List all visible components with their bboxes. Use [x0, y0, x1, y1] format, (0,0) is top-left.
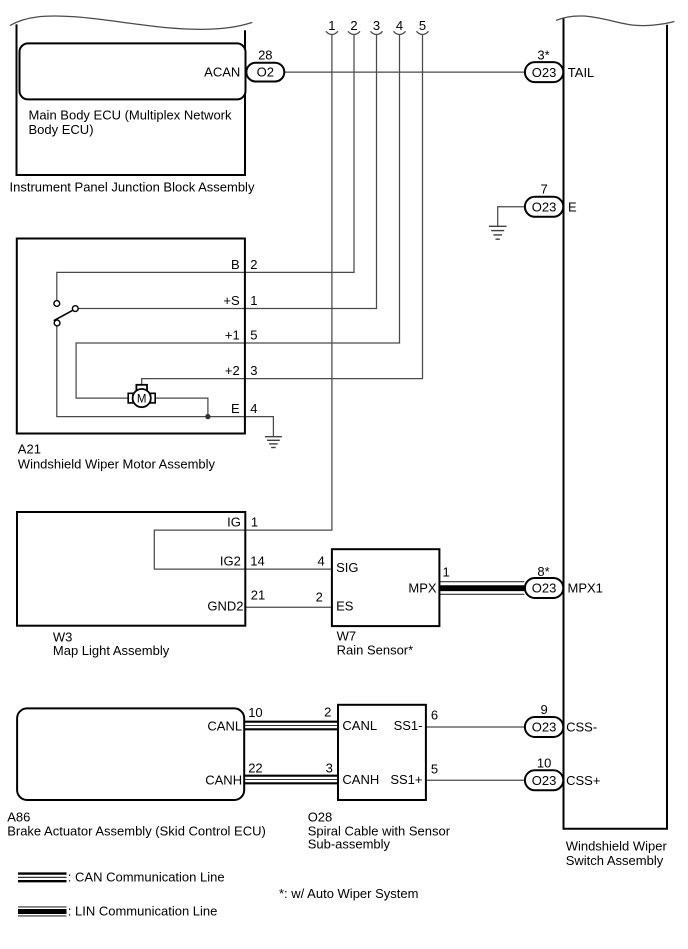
svg-text:8*: 8* — [537, 564, 549, 579]
node 1 break mark — [326, 31, 338, 34]
svg-text:Body ECU): Body ECU) — [29, 122, 94, 137]
svg-text:A86: A86 — [7, 809, 30, 824]
Instrument Panel Junction Block Assembly box — [10, 16, 255, 194]
svg-text:1: 1 — [328, 18, 335, 33]
svg-text:5: 5 — [431, 762, 438, 777]
svg-text:E: E — [231, 401, 240, 416]
connector O23 pin 10 CSS+ — [525, 755, 601, 790]
switch S1 in A21 — [54, 301, 79, 326]
svg-text:ES: ES — [336, 599, 354, 614]
svg-text:O28: O28 — [308, 809, 333, 824]
svg-text:4: 4 — [317, 554, 324, 569]
node 3 vertical line / wire to pin +S — [78, 35, 376, 309]
svg-text:1: 1 — [443, 565, 450, 580]
svg-text:*: w/ Auto Wiper System: *: w/ Auto Wiper System — [279, 886, 418, 901]
svg-text:5: 5 — [419, 18, 426, 33]
svg-text:SIG: SIG — [336, 560, 358, 575]
svg-text:9: 9 — [540, 702, 547, 717]
connector O23 pin 8* MPX1 — [525, 564, 603, 598]
ground symbol right — [489, 226, 507, 239]
CAN wire CANL — [245, 722, 338, 730]
svg-text:10: 10 — [248, 705, 262, 720]
node 5 vertical line / wire to pin +2 and motor top — [142, 35, 423, 385]
LIN wire MPX to MPX1 — [439, 582, 524, 595]
svg-text:+S: +S — [223, 293, 240, 308]
wire motor right brush to E wire — [155, 398, 208, 417]
svg-text:2: 2 — [316, 590, 323, 605]
Brake Actuator Assembly box A86 — [7, 708, 266, 838]
svg-text:B: B — [231, 257, 240, 272]
svg-text:Sub-assembly: Sub-assembly — [308, 837, 391, 852]
svg-text:Map Light Assembly: Map Light Assembly — [53, 643, 170, 658]
motor M in A21 — [128, 385, 155, 407]
node 2 vertical line / wire to pin B — [57, 35, 354, 301]
connector O23 pin 7 E — [525, 182, 577, 217]
svg-text:+2: +2 — [225, 363, 240, 378]
svg-text:3: 3 — [373, 18, 380, 33]
svg-text:CANH: CANH — [205, 772, 242, 787]
CAN wire CANH — [245, 776, 338, 784]
wire switch to pin E to ground — [57, 326, 274, 437]
svg-text:4: 4 — [250, 401, 257, 416]
ground symbol A21 — [265, 437, 282, 448]
Windshield Wiper Motor Assembly box A21 — [17, 239, 245, 472]
svg-text:Rain Sensor*: Rain Sensor* — [337, 643, 414, 658]
svg-text:Instrument Panel Junction Bloc: Instrument Panel Junction Block Assembly — [10, 179, 255, 194]
svg-text:O23: O23 — [532, 720, 557, 735]
svg-text:MPX: MPX — [408, 581, 437, 596]
svg-text:CANH: CANH — [342, 772, 379, 787]
wire SS1+ to connector — [426, 779, 525, 781]
svg-text:1: 1 — [250, 293, 257, 308]
node 5 break mark — [417, 31, 429, 34]
node 3 break mark — [371, 31, 383, 34]
svg-text:M: M — [137, 393, 147, 405]
svg-text:3: 3 — [250, 363, 257, 378]
svg-text:SS1-: SS1- — [394, 718, 423, 733]
svg-text:10: 10 — [537, 755, 551, 770]
svg-text:GND2: GND2 — [207, 599, 243, 614]
svg-text:2: 2 — [324, 705, 331, 720]
svg-text:O23: O23 — [532, 199, 557, 214]
svg-text:TAIL: TAIL — [568, 65, 595, 80]
svg-text:3*: 3* — [537, 48, 549, 63]
Spiral Cable box O28 — [308, 705, 451, 852]
legend LIN line swatch — [18, 904, 217, 919]
svg-text:Windshield Wiper: Windshield Wiper — [566, 838, 668, 853]
svg-text:2: 2 — [350, 18, 357, 33]
node 2 break mark — [348, 31, 360, 34]
legend CAN line swatch — [18, 870, 225, 885]
wire IG2 to SIG — [245, 568, 332, 570]
connector O2 — [246, 63, 284, 82]
wire E connector to ground — [498, 207, 525, 226]
junction dot — [205, 414, 210, 419]
svg-text:1: 1 — [251, 515, 258, 530]
svg-text:SS1+: SS1+ — [390, 772, 422, 787]
svg-text:A21: A21 — [18, 441, 41, 456]
Rain Sensor box W7 — [332, 549, 440, 657]
node 4 break mark — [394, 31, 406, 34]
svg-text:6: 6 — [431, 708, 438, 723]
wire SS1- to connector — [426, 726, 525, 728]
svg-text:CANL: CANL — [342, 718, 377, 733]
svg-text:O2: O2 — [257, 65, 274, 80]
svg-text:21: 21 — [251, 588, 265, 603]
svg-text:ACAN: ACAN — [204, 65, 240, 80]
Main Body ECU block U1 — [20, 43, 246, 136]
svg-text:14: 14 — [250, 554, 264, 569]
svg-text:2: 2 — [250, 257, 257, 272]
svg-text:: LIN Communication Line: : LIN Communication Line — [68, 904, 218, 919]
svg-text:CSS-: CSS- — [566, 720, 597, 735]
connector O23 pin 9 CSS- — [525, 702, 597, 737]
node 1 vertical line — [245, 35, 332, 530]
wire W3 internal IG to IG2 — [154, 530, 245, 569]
svg-text:O23: O23 — [532, 581, 557, 596]
Map Light Assembly box W3 — [17, 512, 245, 658]
svg-text:7: 7 — [540, 182, 547, 197]
wire ACAN to TAIL — [284, 71, 525, 73]
svg-text:: CAN Communication Line: : CAN Communication Line — [68, 870, 225, 885]
svg-text:Switch Assembly: Switch Assembly — [566, 853, 664, 868]
svg-text:Brake Actuator Assembly (Skid: Brake Actuator Assembly (Skid Control EC… — [7, 824, 266, 839]
connector O23 pin 3* TAIL — [525, 48, 594, 83]
svg-text:Windshield Wiper Motor Assembl: Windshield Wiper Motor Assembly — [18, 456, 216, 471]
svg-text:W7: W7 — [337, 629, 357, 644]
svg-text:CANL: CANL — [207, 718, 242, 733]
svg-text:IG: IG — [227, 515, 241, 530]
svg-text:MPX1: MPX1 — [568, 580, 603, 595]
svg-text:CSS+: CSS+ — [566, 773, 600, 788]
svg-text:IG2: IG2 — [220, 554, 241, 569]
svg-text:28: 28 — [258, 48, 272, 63]
svg-text:22: 22 — [248, 761, 262, 776]
svg-text:4: 4 — [396, 18, 403, 33]
wire GND2 to ES — [245, 606, 332, 608]
svg-text:+1: +1 — [225, 328, 240, 343]
svg-text:O23: O23 — [532, 773, 557, 788]
node 4 vertical line / wire to pin +1 and motor — [76, 35, 399, 398]
svg-text:Main Body ECU (Multiplex Netwo: Main Body ECU (Multiplex Network — [29, 107, 233, 122]
svg-text:3: 3 — [326, 760, 333, 775]
Windshield Wiper Switch Assembly box — [556, 16, 674, 868]
svg-text:5: 5 — [250, 328, 257, 343]
svg-text:O23: O23 — [532, 65, 557, 80]
svg-text:E: E — [568, 199, 577, 214]
